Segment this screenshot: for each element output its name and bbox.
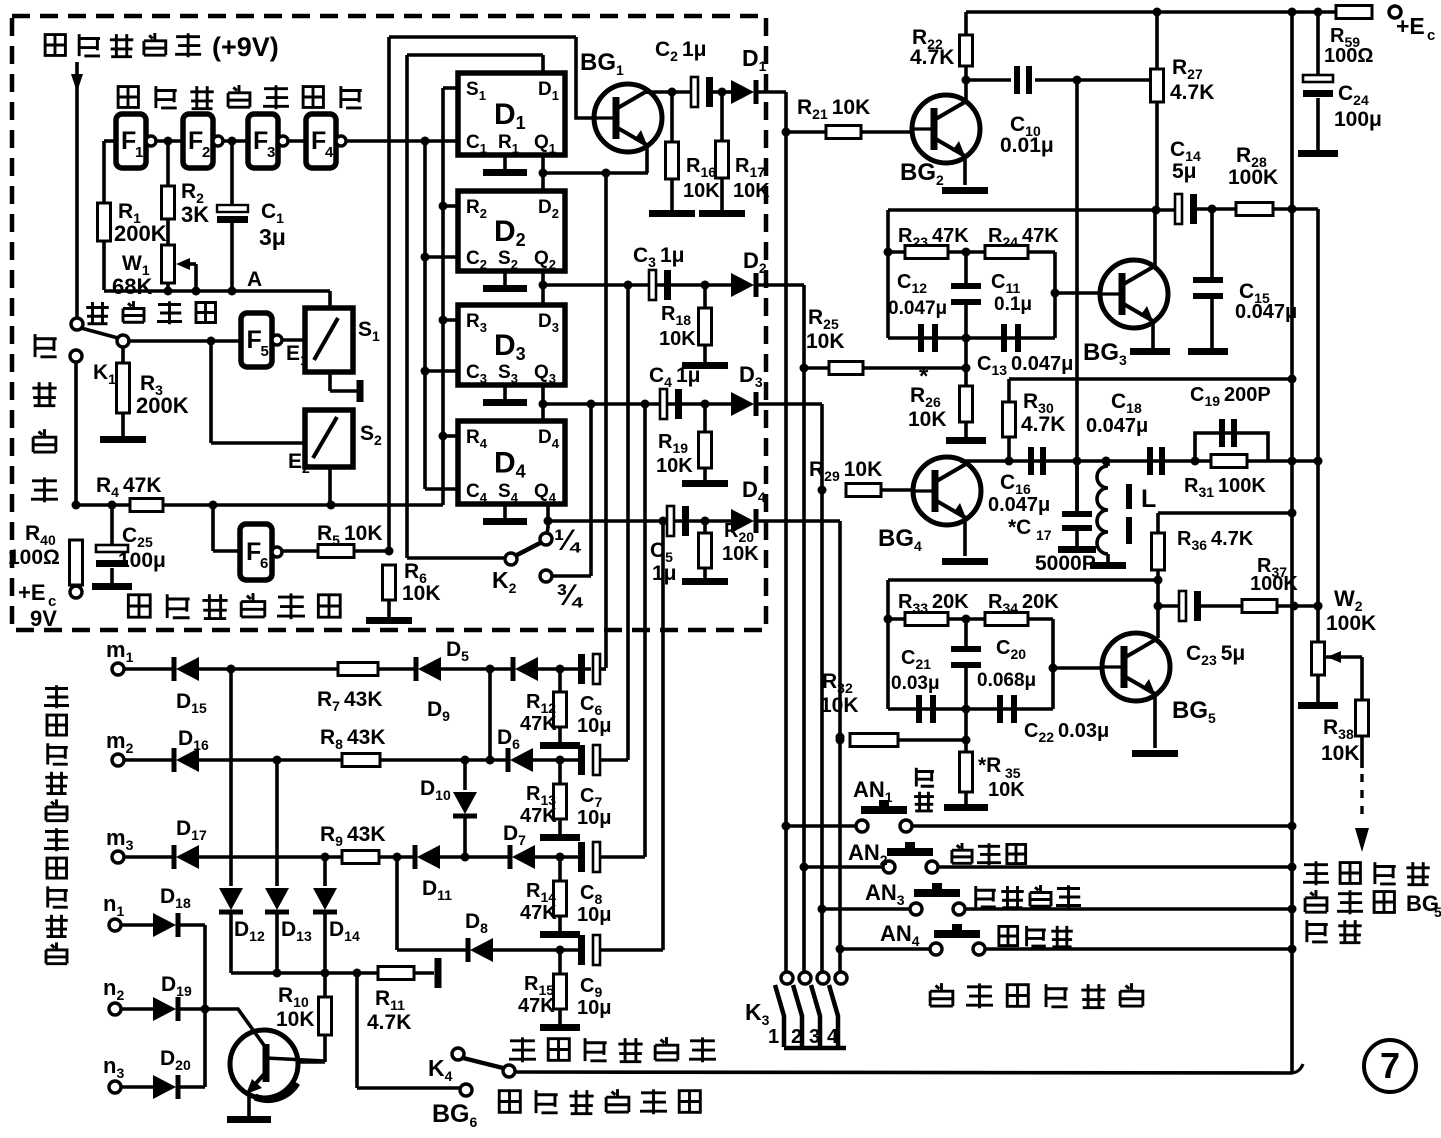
svg-text:R2110K: R2110K bbox=[797, 96, 870, 122]
svg-text:100Ω: 100Ω bbox=[8, 546, 60, 569]
svg-text:10K: 10K bbox=[806, 330, 845, 353]
svg-text:4.7K: 4.7K bbox=[367, 1011, 411, 1034]
svg-text:10μ: 10μ bbox=[577, 715, 611, 737]
svg-text:F: F bbox=[311, 127, 326, 155]
svg-text:10K: 10K bbox=[733, 180, 770, 202]
svg-text:100Ω: 100Ω bbox=[1324, 45, 1373, 67]
svg-text:1: 1 bbox=[768, 1026, 779, 1048]
svg-text:3μ: 3μ bbox=[259, 224, 286, 250]
svg-text:0.1μ: 0.1μ bbox=[994, 294, 1032, 315]
svg-text:¾: ¾ bbox=[556, 579, 584, 612]
svg-text:+E: +E bbox=[1396, 13, 1425, 39]
svg-text:C220.03μ: C220.03μ bbox=[1024, 720, 1109, 745]
svg-text:100K: 100K bbox=[1326, 612, 1376, 635]
svg-text:4: 4 bbox=[827, 1026, 839, 1048]
svg-text:5: 5 bbox=[261, 343, 269, 360]
svg-text:*R: *R bbox=[978, 754, 1001, 777]
svg-text:F: F bbox=[253, 127, 268, 155]
svg-text:0.01μ: 0.01μ bbox=[1000, 134, 1054, 157]
svg-text:10K: 10K bbox=[659, 328, 696, 350]
svg-text:F: F bbox=[121, 127, 136, 155]
svg-text:10K: 10K bbox=[683, 180, 720, 202]
svg-text:R943K: R943K bbox=[320, 823, 386, 849]
svg-text:R2910K: R2910K bbox=[809, 458, 882, 484]
svg-text:47K: 47K bbox=[518, 995, 555, 1017]
svg-text:5: 5 bbox=[1434, 904, 1441, 920]
svg-text:0.068μ: 0.068μ bbox=[977, 670, 1036, 691]
svg-text:47K: 47K bbox=[520, 805, 557, 827]
svg-text:2: 2 bbox=[202, 144, 210, 161]
svg-text:0.03μ: 0.03μ bbox=[891, 673, 940, 694]
svg-text:C130.047μ: C130.047μ bbox=[977, 353, 1073, 378]
svg-text:200K: 200K bbox=[136, 393, 189, 418]
svg-text:R743K: R743K bbox=[317, 688, 383, 714]
svg-text:47K: 47K bbox=[520, 713, 557, 735]
svg-text:R3420K: R3420K bbox=[988, 591, 1059, 616]
svg-text:10K: 10K bbox=[656, 455, 693, 477]
svg-text:R31100K: R31100K bbox=[1184, 475, 1266, 500]
svg-text:7: 7 bbox=[1380, 1045, 1400, 1086]
svg-text:10μ: 10μ bbox=[577, 807, 611, 829]
svg-text:3K: 3K bbox=[181, 202, 209, 227]
svg-text:3: 3 bbox=[267, 144, 275, 161]
svg-text:R364.7K: R364.7K bbox=[1177, 528, 1254, 553]
svg-text:R3320K: R3320K bbox=[898, 591, 969, 616]
svg-text:0.047μ: 0.047μ bbox=[888, 298, 947, 319]
svg-text:10μ: 10μ bbox=[577, 904, 611, 926]
svg-text:100K: 100K bbox=[1228, 166, 1278, 189]
svg-text:*C: *C bbox=[1008, 516, 1031, 539]
svg-text:10K: 10K bbox=[988, 779, 1025, 801]
svg-text:R2347K: R2347K bbox=[898, 225, 969, 250]
svg-text:4.7K: 4.7K bbox=[1170, 81, 1214, 104]
svg-text:R447K: R447K bbox=[96, 474, 162, 500]
svg-text:100μ: 100μ bbox=[118, 549, 166, 572]
svg-text:10K: 10K bbox=[908, 408, 947, 431]
svg-text:100μ: 100μ bbox=[1334, 108, 1382, 131]
svg-text:10K: 10K bbox=[276, 1008, 315, 1031]
svg-text:10μ: 10μ bbox=[577, 997, 611, 1019]
svg-text:10K: 10K bbox=[402, 582, 441, 605]
svg-text:100K: 100K bbox=[1250, 573, 1298, 595]
svg-text:3: 3 bbox=[809, 1026, 820, 1048]
svg-text:F: F bbox=[188, 127, 203, 155]
svg-text:(+9V): (+9V) bbox=[212, 32, 279, 62]
svg-text:4: 4 bbox=[325, 144, 334, 161]
svg-text:+E: +E bbox=[18, 580, 46, 605]
svg-text:c: c bbox=[1427, 27, 1435, 44]
svg-text:0.047μ: 0.047μ bbox=[988, 494, 1050, 516]
svg-text:0.047μ: 0.047μ bbox=[1235, 301, 1297, 323]
svg-text:F: F bbox=[246, 538, 261, 566]
svg-text:R2447K: R2447K bbox=[988, 225, 1059, 250]
svg-text:17: 17 bbox=[1036, 527, 1052, 543]
svg-text:2: 2 bbox=[791, 1026, 802, 1048]
svg-text:A: A bbox=[247, 268, 262, 291]
svg-text:R843K: R843K bbox=[320, 726, 386, 752]
svg-text:0.047μ: 0.047μ bbox=[1086, 415, 1148, 437]
svg-text:4.7K: 4.7K bbox=[1021, 413, 1065, 436]
svg-text:¼: ¼ bbox=[554, 524, 582, 557]
svg-text:1: 1 bbox=[135, 144, 143, 161]
svg-text:5μ: 5μ bbox=[1172, 160, 1197, 183]
svg-text:F: F bbox=[247, 326, 262, 354]
svg-text:68K: 68K bbox=[112, 274, 152, 299]
svg-text:200K: 200K bbox=[114, 221, 167, 246]
svg-text:R510K: R510K bbox=[317, 522, 383, 548]
svg-text:10K: 10K bbox=[722, 543, 759, 565]
svg-text:47K: 47K bbox=[520, 902, 557, 924]
svg-text:10K: 10K bbox=[1321, 742, 1360, 765]
svg-text:6: 6 bbox=[260, 555, 268, 572]
svg-text:9V: 9V bbox=[30, 606, 57, 631]
svg-text:L: L bbox=[1141, 485, 1156, 513]
svg-text:C19200P: C19200P bbox=[1190, 384, 1271, 409]
svg-text:5000P: 5000P bbox=[1035, 552, 1096, 575]
svg-text:4.7K: 4.7K bbox=[910, 46, 954, 69]
